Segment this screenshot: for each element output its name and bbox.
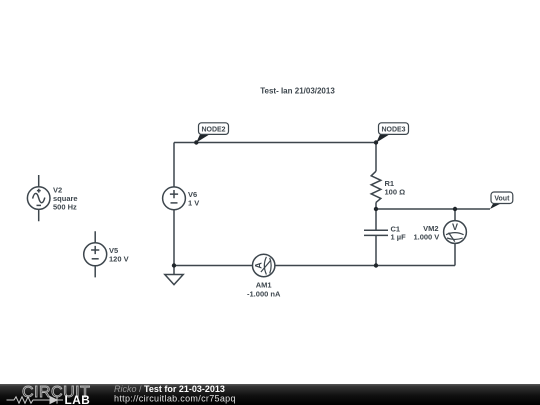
ground stub xyxy=(173,266,175,275)
wire bottom left segment to AM1 xyxy=(174,265,253,267)
svg-text:1.000 V: 1.000 V xyxy=(413,232,439,241)
ground triangle xyxy=(165,275,183,285)
svg-text:1 V: 1 V xyxy=(188,199,199,208)
junction dot C1 bottom xyxy=(374,263,378,267)
svg-text:1 µF: 1 µF xyxy=(391,232,407,241)
ammeter AM1 needle xyxy=(261,260,271,272)
source V6 plus xyxy=(170,190,178,198)
source V2 plus xyxy=(37,189,41,193)
labels xyxy=(53,179,439,298)
svg-text:A: A xyxy=(254,262,264,269)
capacitor C1 xyxy=(364,230,388,235)
ammeter AM1 circle xyxy=(253,254,275,276)
wire C1 bottom to bottom rail xyxy=(375,236,377,266)
junction dot NODE2 xyxy=(194,140,198,144)
svg-text:500 Hz: 500 Hz xyxy=(53,203,77,212)
source V5 leads xyxy=(94,231,96,277)
svg-text:NODE3: NODE3 xyxy=(381,126,405,133)
wire VM2 bottom riser xyxy=(454,243,456,265)
node flag NODE3 xyxy=(376,123,408,143)
wire V6 top lead xyxy=(173,143,175,187)
svg-text:http://circuitlab.com/cr75apq: http://circuitlab.com/cr75apq xyxy=(114,394,236,404)
resistor R1 xyxy=(371,171,381,202)
source V2 leads xyxy=(38,175,40,221)
wire NODE3 down to R1 xyxy=(375,143,377,172)
svg-text:-1.000 nA: -1.000 nA xyxy=(247,290,281,299)
footer logo wire with resistor and diode xyxy=(7,396,64,403)
svg-text:Vout: Vout xyxy=(494,196,510,203)
svg-text:V: V xyxy=(452,222,458,232)
footer bar xyxy=(0,384,540,405)
voltmeter VM2 circle xyxy=(444,221,467,244)
junction dot VM2 top xyxy=(453,207,457,211)
voltmeter VM2 internals xyxy=(446,233,464,242)
wire mid horizontal junction to Vout xyxy=(376,208,490,210)
wire top horizontal NODE2-NODE3 xyxy=(174,142,376,144)
ammeter AM1 internals (rotated meter) xyxy=(254,257,271,275)
node flag NODE2 xyxy=(196,123,228,143)
source V5 circle xyxy=(84,243,107,266)
svg-text:Test- Ian 21/03/2013: Test- Ian 21/03/2013 xyxy=(260,87,335,96)
node flag Vout xyxy=(490,192,513,209)
svg-text:NODE2: NODE2 xyxy=(201,126,225,133)
svg-text:120 V: 120 V xyxy=(109,255,129,264)
source V2 minus xyxy=(37,204,42,206)
wire R1 to junction xyxy=(375,202,377,209)
junction dot ground xyxy=(172,263,176,267)
svg-text:100 Ω: 100 Ω xyxy=(385,188,406,197)
wire VM2 top riser xyxy=(454,209,456,221)
wire junction to C1 top xyxy=(375,209,377,230)
source V2 circle xyxy=(27,187,50,210)
svg-text:LAB: LAB xyxy=(65,393,91,405)
source V6 minus xyxy=(171,202,178,204)
junction dot R1/C1 node xyxy=(374,207,378,211)
junction dot NODE3 corner xyxy=(374,140,378,144)
source V6 circle xyxy=(163,187,186,210)
svg-text:AM1: AM1 xyxy=(256,280,272,289)
source V5 minus xyxy=(92,258,99,260)
svg-text:Ricko / Test for 21-03-2013: Ricko / Test for 21-03-2013 xyxy=(114,384,225,394)
wire V6 bottom to ground junction xyxy=(173,210,175,266)
source V2 sine wave xyxy=(33,193,45,202)
source V5 plus xyxy=(91,246,99,254)
wire bottom right segment from AM1 xyxy=(275,265,455,267)
